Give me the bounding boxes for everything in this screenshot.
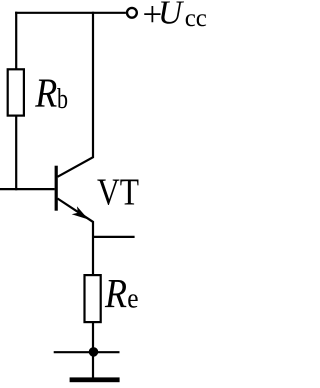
- svg-text:R: R: [104, 270, 127, 316]
- svg-text:R: R: [34, 70, 57, 116]
- svg-text:U: U: [158, 0, 185, 31]
- svg-text:VT: VT: [97, 171, 139, 213]
- svg-text:e: e: [127, 284, 138, 315]
- svg-text:cc: cc: [185, 5, 207, 32]
- svg-text:b: b: [57, 83, 68, 115]
